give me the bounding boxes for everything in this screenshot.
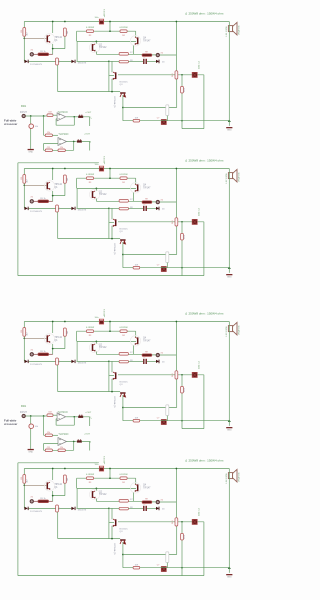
svg-text:BC556A Q5: BC556A Q5 <box>113 244 116 256</box>
wire Q3 base branch (ch4) <box>108 508 110 538</box>
transistor Q4 TIP147 (ch3) <box>135 337 139 345</box>
fuse F1 on supply rail (ch2) <box>99 166 103 171</box>
resistor R8 (ch3) <box>119 360 128 363</box>
wire driver row (ch3) <box>77 340 136 342</box>
connector input jack (xo1) <box>22 114 25 117</box>
svg-text:100u: 100u <box>95 317 99 319</box>
wire driver row (ch1) <box>77 40 136 42</box>
junction R12 top (ch2) <box>181 221 183 223</box>
svg-text:1N4007S: 1N4007S <box>78 509 87 511</box>
resistor R10 10R (ch3) <box>133 419 140 422</box>
svg-text:K601: K601 <box>21 406 27 408</box>
wire rail2 center tie (ch3) <box>109 322 111 332</box>
wire rail2 center tie (ch1) <box>109 22 111 32</box>
wire rail2 left drop (ch3) <box>76 331 78 341</box>
wire Q3 base (ch3) <box>109 375 114 377</box>
fuse F1 on supply rail (ch4) <box>99 466 103 471</box>
svg-text:GND: GND <box>227 577 232 579</box>
wire U1A output (xo2) <box>66 416 78 418</box>
amplifier channel 3 <box>21 308 241 431</box>
resistor R8 (ch4) <box>119 507 128 510</box>
svg-text:TIP142: TIP142 <box>55 184 63 186</box>
svg-text:BC550C: BC550C <box>120 529 129 531</box>
wire R8 to C2 (ch2) <box>128 207 143 209</box>
resistor R4 0R1 5W (ch4) <box>120 477 127 480</box>
junction U1A fb (xo2) <box>73 416 75 418</box>
wire Q1 collector to rail (ch4) <box>52 469 54 481</box>
junction rail tie bottom (ch1) <box>109 30 111 32</box>
wire R6 to bias row (ch4) <box>57 512 59 539</box>
connector input pad X1 (ch2) <box>30 200 33 203</box>
resistor R2 (ch1) <box>64 28 67 36</box>
resistor R24 (xo2) <box>58 449 65 452</box>
wire to Q1 base (ch4) <box>24 484 46 486</box>
ground GND (ch4) <box>226 574 232 579</box>
wire Q1 emitter node (ch2) <box>53 183 65 201</box>
svg-text:R5 1k: R5 1k <box>40 498 46 500</box>
wire input row (xo2) <box>26 415 47 417</box>
junction zobel (ch3) <box>181 420 183 422</box>
wire bottom rail (ch1) <box>123 120 229 122</box>
svg-text:0.1R/5W: 0.1R/5W <box>119 474 127 476</box>
svg-text:GND: GND <box>227 430 232 432</box>
svg-text:Δ: Δ <box>185 312 187 316</box>
ground GND (ch3) <box>226 427 232 432</box>
wire Q5 to bottom rail (ch3) <box>122 395 124 421</box>
connector output pad X2 (ch4) <box>156 501 159 504</box>
resistor R12 (ch3) <box>181 386 184 393</box>
diode D1 1N4007 (ch1) <box>25 60 29 63</box>
junction feedback node (ch2) <box>108 208 110 210</box>
junction bias row (ch4) <box>111 538 113 540</box>
diode D2 1N4007 (ch1) <box>71 60 75 63</box>
transistor Q3 BC550C (ch1) <box>113 72 117 80</box>
speaker LS2 (ch2) <box>228 169 237 182</box>
potentiometer P1 10k (xo2) <box>29 424 34 429</box>
junction Q1 emitter node (ch4) <box>52 495 54 497</box>
capacitor C4 (ch1) <box>192 72 197 77</box>
op-amp U1B (xo2) <box>58 438 67 446</box>
transistor Q2 TIP142 (ch4) <box>92 491 96 499</box>
connector out H pad (xo1) <box>77 139 82 142</box>
resistor R7 (ch4) <box>119 500 128 503</box>
svg-text:BC550C: BC550C <box>120 229 129 231</box>
junction node base Q1 (ch2) <box>23 184 25 186</box>
wire speaker to ground (ch2) <box>228 169 230 273</box>
junction rail R11 (ch3) <box>176 321 178 323</box>
wire R11 branch (ch4) <box>175 469 177 518</box>
junction feedback node (ch4) <box>108 508 110 510</box>
wire R12 branch (ch2) <box>181 222 183 268</box>
svg-text:250W8 ohm : 150W4 ohm: 250W8 ohm : 150W4 ohm <box>189 312 224 316</box>
svg-text:TIP147: TIP147 <box>143 187 151 189</box>
svg-text:TIP147: TIP147 <box>143 40 151 42</box>
diode D2 1N4007 (ch4) <box>71 507 75 510</box>
svg-text:GND: GND <box>28 452 33 454</box>
ground pot GND (xo1) <box>28 149 34 154</box>
transistor Q5 BC556A (ch1) <box>120 92 126 97</box>
wire pad to R5 (ch4) <box>34 500 38 502</box>
svg-text:1k: 1k <box>59 507 61 509</box>
capacitor C7 (ch4) <box>161 566 166 571</box>
resistor R7 (ch3) <box>119 353 128 356</box>
junction feedback node (ch1) <box>108 61 110 63</box>
wire bias row (ch4) <box>58 538 120 540</box>
svg-text:+OUT: +OUT <box>85 112 92 114</box>
diode D3 zener (ch2) <box>156 207 159 211</box>
wire node to R8 (ch3) <box>109 360 119 362</box>
wire zobel loop (ch1) <box>182 75 204 129</box>
junction Q2 collector (ch3) <box>96 341 98 343</box>
svg-text:BC550C: BC550C <box>120 82 129 84</box>
resistor R5 1k (ch2) <box>38 200 49 203</box>
wire out L stub (xo2) <box>83 417 90 426</box>
wire pot branch (xo1) <box>30 116 32 149</box>
wire Q1 emitter node (ch3) <box>53 336 65 354</box>
wire Q5 to bottom rail (ch1) <box>122 95 124 121</box>
wire left branch (ch3) <box>23 322 25 362</box>
wire C2 to D3 (ch4) <box>147 507 156 509</box>
svg-text:0.1R/5W: 0.1R/5W <box>119 174 127 176</box>
junction Q1 collector rail (ch1) <box>52 21 54 23</box>
transistor Q1 outline (ch3) <box>44 334 54 344</box>
wire stage2 input (xo1) <box>44 116 46 135</box>
svg-text:250W8 ohm : 150W4 ohm: 250W8 ohm : 150W4 ohm <box>189 12 224 16</box>
resistor R5 1k (ch3) <box>38 353 49 356</box>
wire node to R8 (ch4) <box>109 507 119 509</box>
junction R12 top (ch4) <box>181 521 183 523</box>
wire diode row (ch2) <box>29 207 72 209</box>
svg-text:250W8 ohm : 150W4 ohm: 250W8 ohm : 150W4 ohm <box>189 459 224 463</box>
svg-text:R5 1k: R5 1k <box>40 51 46 53</box>
svg-text:+42V F1: +42V F1 <box>104 8 106 17</box>
wire out H stub (xo2) <box>82 442 90 451</box>
transistor Q4 TIP147 (ch2) <box>135 184 139 192</box>
resistor R10 10R (ch4) <box>133 566 140 569</box>
junction Q1 emitter node (ch2) <box>52 195 54 197</box>
svg-text:LS3 100W: LS3 100W <box>226 325 228 336</box>
svg-text:TIP142: TIP142 <box>99 494 107 496</box>
wire R13 to rail (ch2) <box>166 263 168 268</box>
wire diode row (ch4) <box>29 507 72 509</box>
transistor Q5 BC556A (ch4) <box>120 539 126 544</box>
wire top supply rail (ch4) <box>24 468 229 470</box>
wire output row (ch4) <box>96 500 176 503</box>
wire D2 to feedback node (ch1) <box>77 60 109 62</box>
junction R11 (ch2) <box>176 221 178 223</box>
svg-text:1k: 1k <box>59 60 61 62</box>
svg-text:Δ: Δ <box>185 12 187 16</box>
wire to Q1 base (ch3) <box>24 337 46 339</box>
svg-text:250W8 ohm : 150W4 ohm: 250W8 ohm : 150W4 ohm <box>189 159 224 163</box>
junction Q1 emitter node (ch1) <box>52 48 54 50</box>
wire out L stub (xo1) <box>83 117 90 126</box>
wire rail2 center tie (ch4) <box>109 469 111 479</box>
wire output emitter rail (ch1) <box>77 30 136 32</box>
connector input jack (xo2) <box>22 414 25 417</box>
junction rail R11 (ch2) <box>176 168 178 170</box>
resistor R3 0R1 5W (ch3) <box>86 330 93 333</box>
svg-text:TIP147: TIP147 <box>143 340 151 342</box>
wire output row (ch1) <box>96 53 176 56</box>
wire rail2 to Q4 (ch2) <box>135 178 137 184</box>
resistor R12 (ch1) <box>181 86 184 93</box>
svg-text:100u: 100u <box>95 17 99 19</box>
svg-text:BC556A Q5: BC556A Q5 <box>113 397 116 409</box>
resistor R9 10R (ch4) <box>142 501 152 504</box>
transistor Q1 TIP142 (ch2) <box>47 182 51 190</box>
diode D1 1N4007 (ch2) <box>25 207 29 210</box>
resistor R10 10R (ch1) <box>133 119 140 122</box>
junction rail R11 (ch4) <box>176 468 178 470</box>
junction zobel (ch4) <box>181 567 183 569</box>
junction Q1 emitter node (ch3) <box>52 348 54 350</box>
junction zobel (ch1) <box>181 120 183 122</box>
wire Q3 base branch (ch1) <box>108 61 110 91</box>
transistor Q1 outline (ch1) <box>44 34 54 44</box>
op-amp U1A (xo1) <box>57 113 66 121</box>
wire node to R8 (ch1) <box>109 60 119 62</box>
svg-text:100u: 100u <box>95 464 99 466</box>
resistor R10 10R (ch2) <box>133 266 140 269</box>
svg-text:R5 1k: R5 1k <box>40 198 46 200</box>
wire R12 branch (ch3) <box>181 375 183 421</box>
svg-text:100n C4: 100n C4 <box>199 207 201 216</box>
svg-text:10R: 10R <box>135 564 139 566</box>
capacitor C2 (ch4) <box>143 506 147 511</box>
junction R11 (ch1) <box>176 74 178 76</box>
junction rail tie top (ch1) <box>109 21 111 23</box>
junction Q2 collector (ch4) <box>96 488 98 490</box>
svg-text:TL072CN: TL072CN <box>58 134 68 136</box>
transistor Q3 BC550C (ch3) <box>113 372 117 380</box>
junction bias branch (ch2) <box>122 254 124 256</box>
resistor R1 (ch2) <box>23 175 26 184</box>
wire diode row (ch3) <box>29 360 72 362</box>
wire Q5 to bottom rail (ch4) <box>122 542 124 568</box>
wire Q1 emitter node (ch4) <box>53 483 65 501</box>
transistor Q2 TIP142 (ch2) <box>92 191 96 199</box>
amplifier channel 4 <box>18 455 241 578</box>
transistor Q4 outline (ch1) <box>130 36 140 46</box>
wire diode row (ch1) <box>29 60 72 62</box>
connector out H pad (xo2) <box>77 439 82 442</box>
wire output emitter rail (ch4) <box>77 477 136 479</box>
svg-text:VISATON: VISATON <box>238 472 241 482</box>
speaker LS1 (ch1) <box>228 22 237 35</box>
svg-text:GND: GND <box>227 130 232 132</box>
op-amp U1B (xo1) <box>58 138 67 146</box>
capacitor C4 (ch2) <box>192 219 197 224</box>
junction R11 (ch3) <box>176 374 178 376</box>
wire pad to R5 (ch3) <box>34 353 38 355</box>
junction R2 top rail (ch2) <box>64 168 66 170</box>
wire mid feedback row (ch3) <box>118 374 204 376</box>
svg-text:100n C4: 100n C4 <box>199 60 201 69</box>
resistor R22 (xo1) <box>45 134 52 137</box>
resistor R24 (xo1) <box>58 149 65 152</box>
svg-text:TL072CN: TL072CN <box>58 434 68 436</box>
wire node to R8 (ch2) <box>109 207 119 209</box>
svg-text:1N4007S: 1N4007S <box>78 62 87 64</box>
junction feedback node (ch3) <box>108 361 110 363</box>
transistor Q5 BC556A (ch3) <box>120 392 126 397</box>
junction U1B fb (xo1) <box>73 141 75 143</box>
capacitor C4 (ch3) <box>192 372 197 377</box>
wire output emitter rail (ch3) <box>77 330 136 332</box>
crossover filter 1 <box>4 106 93 154</box>
resistor R5 1k (ch4) <box>38 500 49 503</box>
junction speaker return (ch4) <box>228 566 231 569</box>
resistor R9 10R (ch2) <box>142 201 152 204</box>
capacitor C7 (ch2) <box>161 266 166 271</box>
junction U1B fb (xo2) <box>73 441 75 443</box>
svg-text:GND: GND <box>227 277 232 279</box>
resistor R12 (ch2) <box>181 233 184 240</box>
transistor Q4 TIP147 (ch4) <box>135 484 139 492</box>
resistor R6 (ch4) <box>56 505 59 512</box>
resistor R3 0R1 5W (ch2) <box>86 177 93 180</box>
wire U1B output (xo1) <box>67 141 77 143</box>
wire R22 to op-amp (xo2) <box>52 434 58 436</box>
wire R6 to bias row (ch2) <box>57 212 59 239</box>
svg-text:crossover: crossover <box>4 122 18 126</box>
wire D2 to feedback node (ch4) <box>77 507 109 509</box>
wire Q3 base (ch2) <box>109 222 114 224</box>
junction pot top (xo2) <box>30 415 32 417</box>
svg-text:BC550C: BC550C <box>120 382 129 384</box>
wire R11 branch (ch1) <box>175 22 177 71</box>
wire left branch (ch2) <box>23 169 25 209</box>
wire R12 branch (ch1) <box>181 75 183 121</box>
junction node base Q1 (ch1) <box>23 37 25 39</box>
resistor R4 0R1 5W (ch2) <box>120 177 127 180</box>
wire R8 to C2 (ch3) <box>128 360 143 362</box>
junction R12 top (ch1) <box>181 74 183 76</box>
wire mid feedback row (ch1) <box>118 74 204 76</box>
wire rail2 to Q4 (ch3) <box>135 331 137 337</box>
wire Q2 leads (ch3) <box>95 341 97 354</box>
wire Q1 collector to rail (ch1) <box>52 22 54 34</box>
resistor R1 (ch4) <box>23 475 26 484</box>
connector output pad X2 (ch3) <box>156 354 159 357</box>
wire bias branch (ch3) <box>123 379 177 408</box>
transistor Q5 BC556A (ch2) <box>120 239 126 244</box>
svg-text:D1 1N4007S: D1 1N4007S <box>30 511 43 513</box>
resistor R21 (xo2) <box>47 414 53 417</box>
svg-text:12k: 12k <box>60 147 63 149</box>
wire pad to R5 (ch2) <box>34 200 38 202</box>
resistor R11 (ch3) <box>175 371 178 379</box>
wire output row (ch3) <box>96 353 176 356</box>
junction rail tie top (ch2) <box>109 168 111 170</box>
wire R22 to op-amp (xo1) <box>52 134 58 136</box>
ground GND (ch1) <box>226 127 232 132</box>
svg-text:+OUT: +OUT <box>84 433 91 435</box>
svg-text:0.1R/5W: 0.1R/5W <box>86 327 94 329</box>
wire D2 to feedback node (ch3) <box>77 360 109 362</box>
wire to Q1 base (ch1) <box>24 37 46 39</box>
wire Q3 base branch (ch3) <box>108 361 110 391</box>
junction R12 top (ch3) <box>181 374 183 376</box>
svg-text:12k: 12k <box>60 447 63 449</box>
capacitor C4 (ch4) <box>192 519 197 524</box>
svg-text:TIP142: TIP142 <box>99 194 107 196</box>
wire U1A feedback loop (xo2) <box>56 417 74 425</box>
svg-text:1N4007S: 1N4007S <box>78 209 87 211</box>
svg-text:TIP142: TIP142 <box>55 337 63 339</box>
diode D3 zener (ch3) <box>156 360 159 364</box>
resistor R13 trimmer (ch2) <box>166 252 169 263</box>
svg-text:VISATON: VISATON <box>238 25 241 35</box>
resistor R1 (ch3) <box>23 328 26 337</box>
junction bias branch (ch1) <box>122 107 124 109</box>
capacitor C2 (ch2) <box>143 206 147 211</box>
svg-text:1k: 1k <box>59 360 61 362</box>
junction Q1 collector rail (ch4) <box>52 468 54 470</box>
wire Q3 leads (ch2) <box>111 208 113 238</box>
svg-text:BC556A Q5: BC556A Q5 <box>113 97 116 109</box>
svg-text:TIP142: TIP142 <box>99 47 107 49</box>
wire Q4 emitter drop (ch1) <box>133 46 135 55</box>
resistor R22 (xo2) <box>45 434 52 437</box>
junction rail R11 (ch1) <box>176 21 178 23</box>
svg-text:D1 1N4007S: D1 1N4007S <box>30 64 43 66</box>
wire rail2 to Q4 (ch4) <box>135 478 137 484</box>
wire Q3 base (ch4) <box>109 522 114 524</box>
connector input pad X1 (ch1) <box>30 53 33 56</box>
svg-text:TIP142: TIP142 <box>55 484 63 486</box>
svg-text:0.1R/5W: 0.1R/5W <box>86 27 94 29</box>
resistor R1 (ch1) <box>23 28 26 37</box>
transistor Q1 outline (ch2) <box>44 181 54 191</box>
wire R6 to bias row (ch1) <box>57 65 59 92</box>
junction pot top (xo1) <box>30 115 32 117</box>
svg-text:+OUT: +OUT <box>85 412 92 414</box>
resistor R7 (ch2) <box>119 200 128 203</box>
junction rail tie bottom (ch4) <box>109 477 111 479</box>
wire bottom rail (ch3) <box>123 420 229 422</box>
junction rail tie top (ch4) <box>109 468 111 470</box>
junction bias row (ch3) <box>111 391 113 393</box>
wire Q4 emitter drop (ch4) <box>133 493 135 502</box>
wire Q5 to bottom rail (ch2) <box>122 242 124 268</box>
ground GND (ch2) <box>226 274 232 279</box>
wire R11 branch (ch3) <box>175 322 177 371</box>
wire Q3 leads (ch3) <box>111 361 113 391</box>
svg-text:0.1R/5W: 0.1R/5W <box>119 27 127 29</box>
wire Q3 base branch (ch2) <box>108 208 110 238</box>
transistor Q1 TIP142 (ch3) <box>47 335 51 343</box>
junction rail tie bottom (ch3) <box>109 330 111 332</box>
wire R5 to emitter node (ch2) <box>49 200 53 202</box>
resistor R6 (ch3) <box>56 358 59 365</box>
diode D2 1N4007 (ch2) <box>71 207 75 210</box>
svg-text:0.1R/5W: 0.1R/5W <box>86 474 94 476</box>
junction speaker return (ch1) <box>228 119 231 122</box>
svg-text:crossover: crossover <box>4 422 18 426</box>
wire bottom rail (ch4) <box>123 567 229 569</box>
wire bias row (ch1) <box>58 91 120 93</box>
svg-text:LS4 100W: LS4 100W <box>226 472 228 483</box>
svg-text:100n C4: 100n C4 <box>199 507 201 516</box>
svg-text:+42V F1: +42V F1 <box>104 455 106 464</box>
wire Q2 leads (ch1) <box>95 41 97 54</box>
potentiometer P1 10k (xo1) <box>29 124 34 129</box>
wire speaker to ground (ch4) <box>228 469 230 573</box>
wire U1A output (xo1) <box>66 116 78 118</box>
resistor R7 (ch1) <box>119 53 128 56</box>
